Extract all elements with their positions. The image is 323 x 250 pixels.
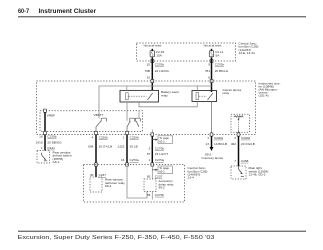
illumination lead down — [238, 130, 240, 134]
svg-text:1322: 1322 — [118, 145, 125, 149]
wire: fuse F2.45 to battery saver relay — [151, 58, 153, 91]
courtesy lamps arrowhead — [210, 147, 214, 151]
driver contact Q3 — [135, 111, 140, 127]
central junction box (upper) label — [239, 42, 259, 55]
wire: cluster to rear defroster relay — [95, 135, 97, 177]
main light switch label — [249, 166, 269, 176]
main light switch dashed box SW2 — [231, 166, 246, 179]
svg-text:60-2: 60-2 — [159, 139, 165, 143]
svg-text:13: 13 — [206, 142, 210, 146]
svg-text:C270b: C270b — [155, 62, 164, 66]
microprocessor inner dashed outline — [40, 111, 143, 132]
svg-text:2: 2 — [234, 136, 236, 140]
pin label 1 C241 — [41, 146, 55, 150]
driver contact Q2 — [127, 118, 135, 131]
wire: inside CJB to accessory relay coil — [151, 166, 153, 179]
wire: battery saver output to interior relay coil — [139, 102, 197, 107]
header rule — [18, 16, 306, 18]
interior lamps relay coil — [196, 93, 199, 100]
rear window defrost switch label — [53, 151, 72, 164]
wire: cluster 1322 to accessory delay relay — [126, 135, 128, 165]
svg-text:36: 36 — [147, 193, 151, 197]
svg-text:C220b: C220b — [130, 136, 139, 140]
svg-text:1: 1 — [41, 146, 43, 150]
interior lamps relay link (dashed) — [199, 95, 207, 97]
wire: accessory relay out bottom — [151, 192, 153, 200]
battery saver relay link (dashed) — [128, 95, 146, 97]
svg-text:20 DB/OG: 20 DB/OG — [47, 140, 62, 144]
central junction box (upper) dashed outline — [137, 43, 236, 61]
pin label 2 C220d — [234, 136, 250, 140]
svg-text:5: 5 — [149, 147, 151, 151]
svg-text:C241: C241 — [47, 146, 55, 150]
svg-text:9: 9 — [208, 62, 210, 66]
svg-text:99-2: 99-2 — [159, 185, 165, 189]
svg-text:14 BK/LB: 14 BK/LB — [214, 142, 227, 146]
svg-text:60-7: 60-7 — [18, 9, 30, 15]
svg-text:4: 4 — [92, 136, 94, 140]
pin label 1 C270a — [149, 158, 165, 162]
svg-text:20 OG/LB: 20 OG/LB — [241, 142, 255, 146]
svg-text:relay: relay — [223, 91, 230, 95]
pin C220a (courtesy lamps wire) at cluster bottom — [210, 133, 213, 136]
pin at cluster top (wire A) — [151, 80, 154, 83]
fuse F2.11 5A — [209, 49, 223, 58]
pin label 7 C268 — [234, 159, 248, 163]
svg-text:C237: C237 — [99, 173, 107, 177]
circuit label 1322 20 LB — [118, 145, 138, 149]
svg-text:relay: relay — [161, 93, 168, 97]
svg-text:C270b: C270b — [155, 147, 164, 151]
pin at cluster top (wire B) — [210, 80, 213, 83]
pin C220b (defrost relay wire) at cluster bottom — [95, 131, 98, 134]
pin at CJB top (1322 wire) — [126, 163, 129, 166]
svg-text:VREF: VREF — [47, 114, 55, 118]
svg-text:16: 16 — [121, 158, 125, 162]
svg-text:99-4: 99-4 — [105, 184, 111, 188]
svg-text:VBATT: VBATT — [94, 113, 104, 117]
rear window defrost switch symbol — [42, 153, 48, 161]
circuit label 462 20 OG/LB — [231, 142, 255, 146]
interior lamps relay box U2 — [192, 91, 217, 102]
svg-text:22 LG/OG: 22 LG/OG — [155, 69, 170, 73]
svg-text:1: 1 — [123, 136, 125, 140]
svg-text:13-4: 13-4 — [188, 176, 194, 180]
svg-text:1: 1 — [149, 158, 151, 162]
wire: illumination to main light switch — [238, 136, 240, 166]
svg-text:15A: 15A — [156, 54, 162, 58]
wire: battery saver coil top stub — [126, 86, 128, 90]
battery saver relay box U1 — [120, 90, 159, 102]
svg-text:85: 85 — [147, 174, 151, 178]
rear window defroster relay label — [105, 178, 125, 188]
circuit label 57 24 LG/VT — [147, 152, 168, 156]
cluster illumination dashed box — [231, 114, 249, 132]
battery saver relay contact blade — [148, 93, 153, 100]
svg-text:20 LB: 20 LB — [130, 145, 138, 149]
pin at CJB bottom (left fuse wire) — [151, 60, 154, 63]
svg-text:70B: 70B — [144, 69, 150, 73]
circuit label 694 20 GY/LB — [88, 145, 112, 149]
to page 60-2 arrow (upper) — [152, 136, 172, 144]
pin label 1 C220a — [207, 136, 223, 140]
svg-text:C270a: C270a — [155, 158, 164, 162]
battery saver relay coil — [126, 93, 129, 100]
svg-text:Hot at all times: Hot at all times — [144, 43, 162, 47]
circuit label 13 14 BK/LB — [206, 142, 228, 146]
instrument cluster label — [259, 81, 281, 97]
wire: 1322 inside CJB to accessory relay — [127, 166, 147, 198]
pin label 85 C237 — [147, 174, 163, 178]
pin C220b (to page wire) at cluster bottom — [151, 133, 154, 136]
svg-text:57: 57 — [147, 152, 151, 156]
wire B labels: 9 C270b — [208, 62, 224, 66]
wire: VREF labels below cluster — [39, 134, 57, 138]
battery saver relay label — [161, 90, 179, 97]
wire stub node (to page feed) — [151, 130, 153, 134]
wire: battery saver coil lead down — [126, 102, 128, 121]
central junction box (lower) dashed outline — [84, 165, 185, 203]
illumination wiper lead (dashed) — [238, 120, 240, 130]
svg-text:16: 16 — [39, 134, 43, 138]
footer rule — [18, 230, 306, 232]
pin at CJB bottom (right fuse wire) — [210, 60, 213, 63]
svg-text:C220a: C220a — [214, 136, 223, 140]
svg-text:C220b: C220b — [99, 136, 108, 140]
pin C220d (illumination wire) at cluster bottom — [237, 133, 240, 136]
pin C220b (VREF wire) at cluster bottom — [44, 131, 47, 134]
svg-text:Hot at all times: Hot at all times — [204, 43, 222, 47]
pin label 4 C220b — [92, 136, 108, 140]
svg-text:C270b: C270b — [155, 193, 164, 197]
svg-text:Excursion, Super Duty Series F: Excursion, Super Duty Series F-250, F-35… — [18, 235, 215, 241]
svg-text:Instrument Cluster: Instrument Cluster — [39, 9, 97, 15]
wire: interior lamps relay output down — [211, 102, 213, 134]
svg-text:Courtesy lamps: Courtesy lamps — [202, 156, 224, 160]
main light switch symbol — [239, 166, 244, 177]
circuit label 1410 20 DB/OG — [36, 140, 63, 144]
svg-text:30: 30 — [90, 173, 94, 177]
interior lamps relay label — [223, 88, 242, 95]
to page 60-2 arrow (lower) — [152, 166, 172, 174]
svg-text:462: 462 — [231, 142, 236, 146]
svg-text:GK-1: GK-1 — [53, 160, 61, 164]
pin label 5 C270b — [149, 147, 165, 151]
pin at CJB top (57 wire) — [151, 163, 154, 166]
svg-text:C270b: C270b — [215, 62, 224, 66]
wire B circuit label: 781 20 BK/LG — [205, 69, 229, 73]
illumination rheostat wiper arrow — [238, 117, 240, 120]
illumination rheostat resistor — [234, 116, 244, 118]
svg-text:15: 15 — [147, 62, 151, 66]
wire: interior lamps coil top stub — [196, 86, 198, 91]
rear window defrost switch dashed box SW1 — [37, 151, 50, 164]
pin label 16 C270a — [121, 158, 139, 162]
svg-text:13-E, 13-34: 13-E, 13-34 — [239, 51, 255, 55]
svg-text:C268: C268 — [241, 159, 249, 163]
instrument cluster dashed outline — [37, 81, 256, 135]
svg-text:60-2: 60-2 — [159, 170, 165, 174]
pin at CJB top (694 wire) — [95, 163, 98, 166]
wire: VREF to rear defrost switch — [44, 112, 46, 150]
pin C220b (1322 wire) at cluster bottom — [126, 131, 129, 134]
pin label 30 C237 — [90, 173, 106, 177]
svg-text:C237: C237 — [155, 174, 163, 178]
pin label 36 C270b — [147, 193, 164, 197]
wire A circuit label: 70B 22 LG/OG — [144, 69, 169, 73]
svg-text:To page: To page — [159, 166, 169, 170]
driver contact Q1 — [96, 118, 106, 131]
svg-text:To page: To page — [159, 136, 169, 140]
wire A labels: 15 C270b — [147, 62, 165, 66]
rear window defroster relay dashed box K1 — [90, 177, 102, 192]
svg-text:13-46, GD-2: 13-46, GD-2 — [249, 172, 266, 176]
svg-text:781: 781 — [205, 69, 210, 73]
svg-text:7: 7 — [234, 159, 236, 163]
accessory delay relay dashed box K2 — [144, 179, 156, 192]
accessory delay relay label — [159, 179, 174, 189]
svg-text:1: 1 — [207, 136, 209, 140]
central junction box (lower) label — [188, 166, 208, 179]
fuse F2.45 15A — [150, 49, 164, 58]
svg-text:24 LG/VT: 24 LG/VT — [155, 152, 168, 156]
svg-text:694: 694 — [88, 145, 93, 149]
svg-text:C270a: C270a — [130, 158, 139, 162]
wire: VBATT feed from relay output — [99, 86, 212, 118]
destination label: 99-2 courtesy lamps — [202, 152, 224, 160]
svg-text:C220d: C220d — [241, 136, 250, 140]
wire: interior lamps relay to courtesy lamps — [211, 136, 213, 147]
wire: cluster to page 60-2 column — [151, 136, 153, 164]
pin label 1 C220b — [123, 136, 139, 140]
svg-text:10: 10 — [147, 75, 151, 79]
interior lamps relay contact blade — [208, 93, 213, 100]
svg-text:6: 6 — [208, 75, 210, 79]
svg-text:20 GY/LB: 20 GY/LB — [99, 145, 112, 149]
svg-text:(151-4): (151-4) — [259, 94, 269, 98]
VREF pin — [44, 109, 47, 112]
svg-text:C220b: C220b — [47, 134, 56, 138]
svg-text:1410: 1410 — [36, 140, 43, 144]
svg-text:20 BK/LG: 20 BK/LG — [215, 69, 229, 73]
wire: fuse F2.11 to interior lamps relay — [211, 58, 213, 93]
